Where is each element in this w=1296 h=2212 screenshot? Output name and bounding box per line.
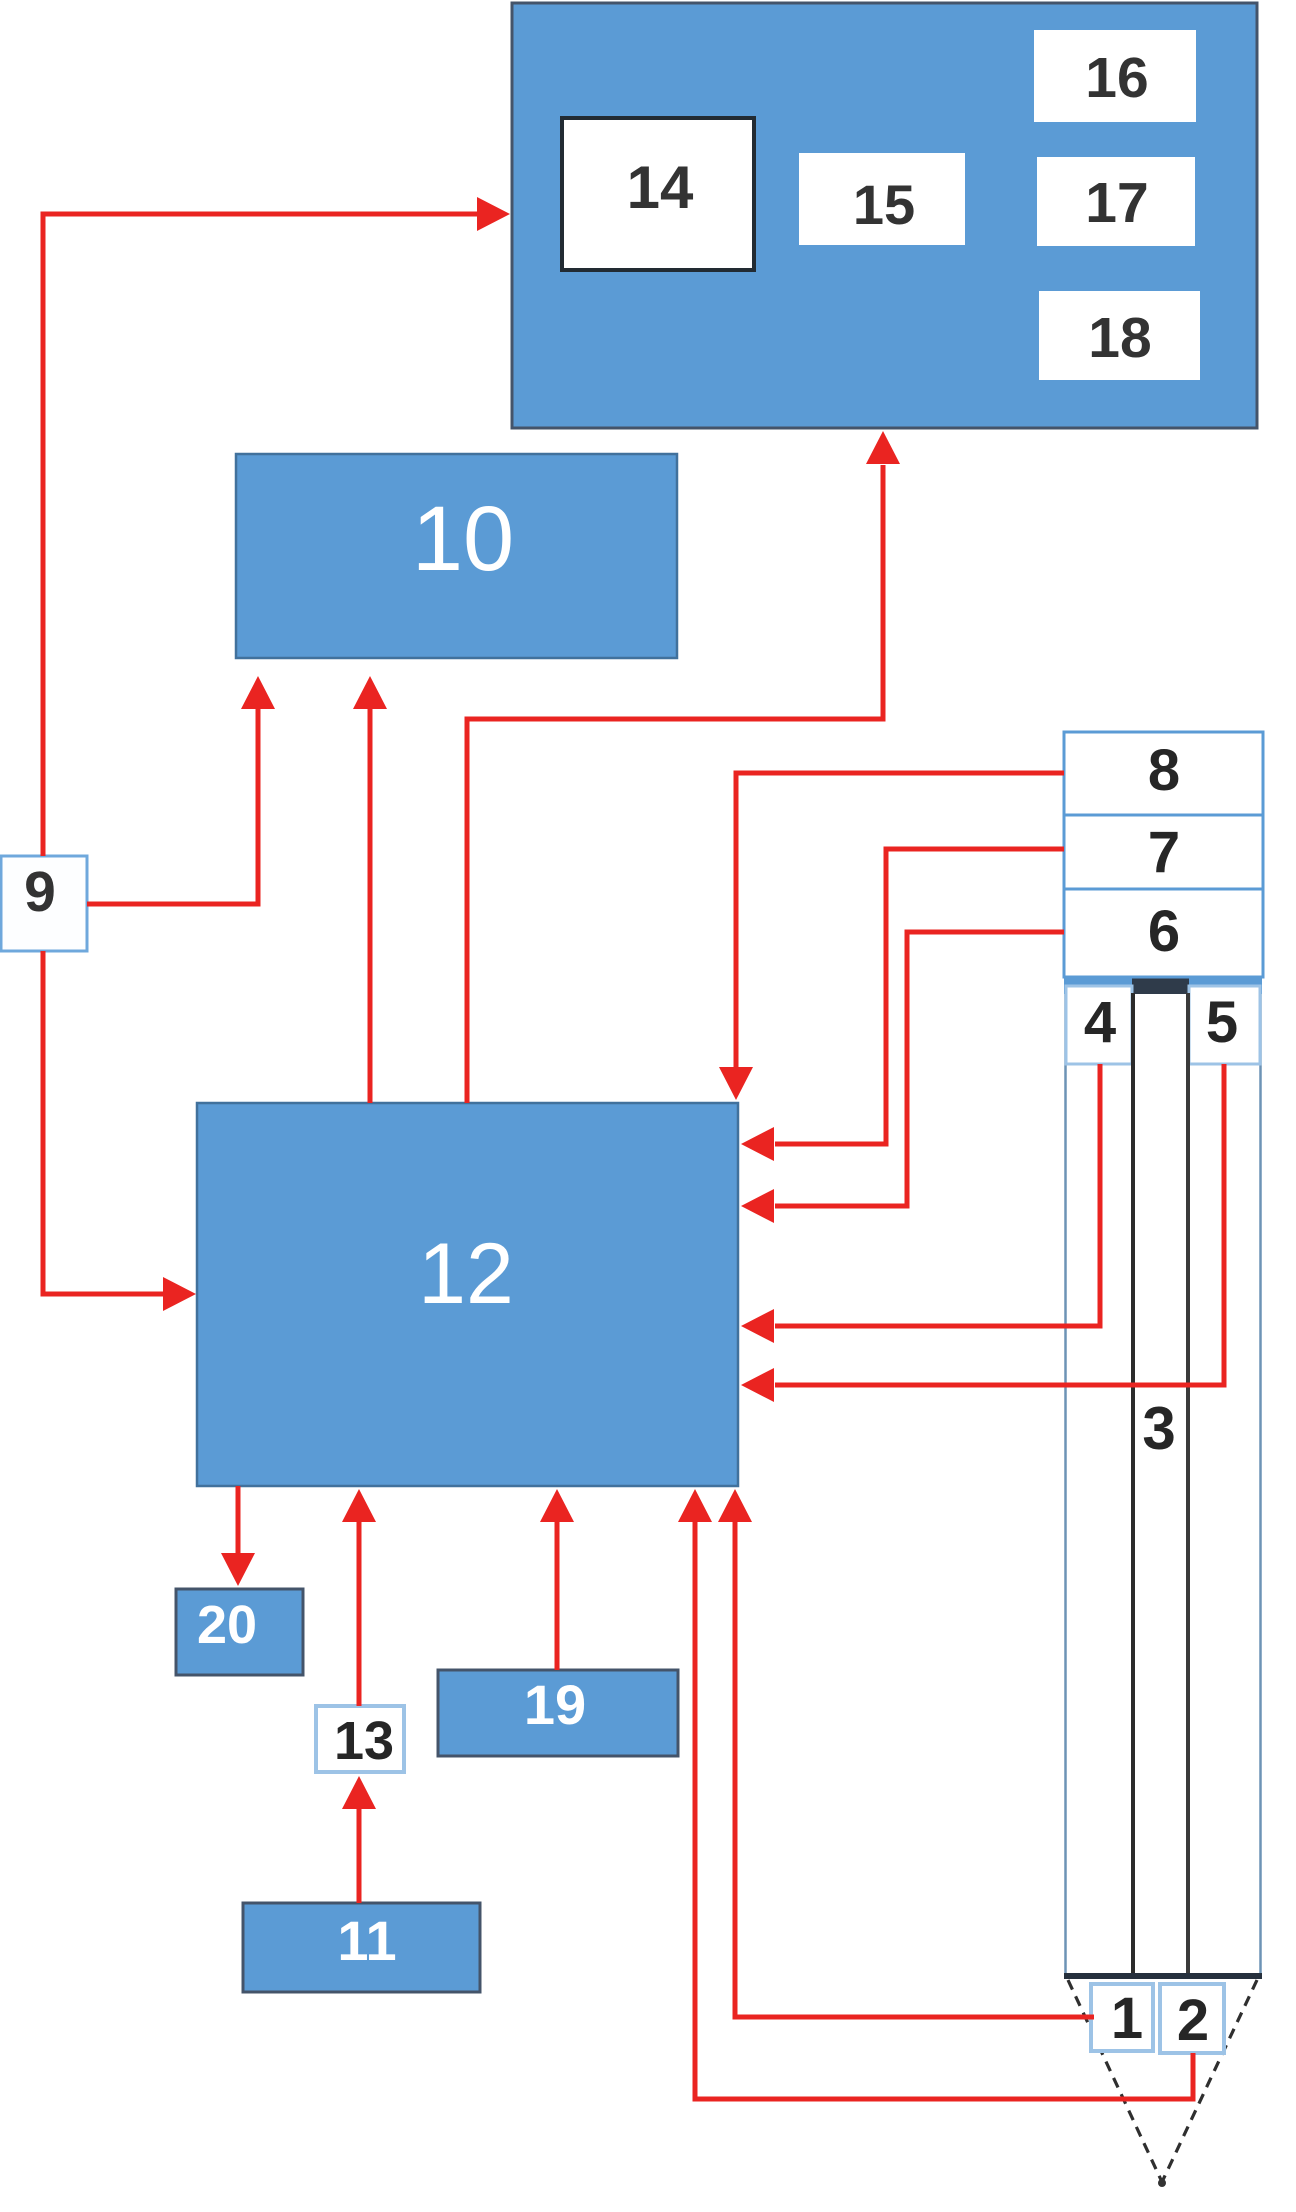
svg-text:8: 8: [1148, 738, 1180, 803]
wire junction 9 to top unit arrow: [43, 197, 510, 856]
svg-text:13: 13: [334, 1711, 394, 1771]
svg-text:14: 14: [627, 154, 694, 221]
wire 2 to 12 arrow: [678, 1489, 1193, 2099]
wire 4 to 12 arrow: [741, 1064, 1100, 1343]
pen top collar band: [1064, 977, 1262, 994]
pen barrel 3 outline: [1066, 977, 1261, 1976]
block 11: [243, 1903, 480, 1992]
svg-text:5: 5: [1206, 990, 1238, 1055]
svg-text:12: 12: [418, 1226, 514, 1322]
block 9: [1, 856, 87, 951]
svg-text:20: 20: [197, 1595, 257, 1655]
wire 9 to 12 arrow: [43, 951, 196, 1311]
wire 8 to 12 arrow: [719, 773, 1064, 1100]
block 4: [1066, 986, 1132, 1064]
block 17: [1037, 157, 1195, 246]
block 8: [1064, 732, 1263, 815]
wire 19 to 12 arrow: [540, 1489, 574, 1670]
block: top unit enclosure: [512, 3, 1257, 428]
svg-text:3: 3: [1142, 1395, 1175, 1462]
svg-text:1: 1: [1111, 1986, 1143, 2051]
pen inner black line left: [1131, 993, 1135, 1974]
wire 11 to 13 arrow: [342, 1776, 376, 1903]
wire 12 to top unit arrow: [467, 431, 900, 1103]
block 16: [1034, 30, 1196, 122]
svg-text:9: 9: [24, 860, 56, 924]
wire 12 to 10 arrow: [353, 676, 387, 1103]
wire 12 to 20 arrow: [221, 1486, 255, 1586]
svg-text:11: 11: [337, 1909, 396, 1972]
wire 5 to 12 arrow: [741, 1064, 1224, 1402]
pen tip cone: [1068, 1980, 1257, 2187]
svg-text:19: 19: [524, 1673, 586, 1736]
block 14: [562, 118, 754, 270]
wire 1 to 12 arrow: [718, 1489, 1094, 2017]
block 19: [438, 1670, 678, 1756]
svg-text:16: 16: [1085, 46, 1148, 110]
block 13: [316, 1706, 404, 1772]
block 10: [236, 454, 677, 658]
svg-text:17: 17: [1085, 171, 1148, 235]
block 12: [197, 1103, 738, 1486]
svg-text:4: 4: [1084, 990, 1116, 1055]
wire 7 to 12 arrow: [741, 849, 1064, 1161]
svg-text:6: 6: [1148, 899, 1180, 964]
pen inner black line right: [1186, 993, 1190, 1974]
svg-text:15: 15: [853, 173, 915, 236]
block 6: [1064, 889, 1263, 977]
block 7: [1064, 815, 1263, 889]
pen body bottom edge: [1064, 1973, 1262, 1979]
wire 6 to 12 arrow: [741, 932, 1064, 1223]
svg-text:10: 10: [412, 488, 514, 590]
wire 13 to 12 arrow: [342, 1489, 376, 1706]
svg-text:18: 18: [1088, 306, 1151, 370]
svg-text:2: 2: [1177, 1988, 1209, 2053]
label 3: [1142, 1395, 1175, 1462]
svg-text:7: 7: [1148, 820, 1180, 885]
block 15: [799, 153, 965, 245]
block 2: [1160, 1984, 1224, 2053]
block 1: [1091, 1984, 1153, 2051]
block 20: [176, 1589, 303, 1675]
block 18: [1039, 291, 1200, 380]
wire 9 to 10 arrow: [87, 676, 275, 904]
block 5: [1189, 986, 1260, 1064]
